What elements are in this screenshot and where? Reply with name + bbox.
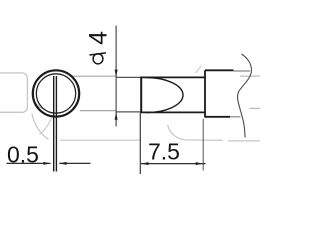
front view outer circle xyxy=(33,70,79,116)
watermark curve below circle xyxy=(32,114,49,140)
break line xyxy=(238,54,252,138)
side view bottom edge xyxy=(140,111,206,113)
phi4 extension line top (dark part) xyxy=(116,76,142,78)
watermark line bottom right xyxy=(228,140,260,142)
0.5 dimension line right segment xyxy=(59,162,90,164)
7.5 left arrow xyxy=(141,162,148,165)
phi4 label: diameter symbol circle xyxy=(93,54,103,64)
blade edge line left xyxy=(53,76,55,172)
watermark line mid left xyxy=(60,139,140,141)
phi4 bottom arrow xyxy=(115,112,118,120)
sleeve bottom edge dark xyxy=(205,116,230,118)
watermark crossing arc xyxy=(40,118,53,135)
phi4 top arrow xyxy=(115,70,118,78)
watermark diagonal near step xyxy=(196,66,202,74)
svg-text:7.5: 7.5 xyxy=(148,138,180,164)
sleeve top edge light xyxy=(234,70,251,72)
svg-text:4: 4 xyxy=(85,31,113,45)
7.5 left extension line xyxy=(139,113,141,174)
blade edge line right xyxy=(55,76,57,172)
phi4 extension line top (light part) xyxy=(70,75,116,77)
watermark arc near 7.5 xyxy=(168,125,223,140)
side view top edge xyxy=(140,76,206,78)
side view tip face edge xyxy=(140,77,142,113)
7.5 dimension line xyxy=(141,163,206,165)
watermark bracket left xyxy=(0,73,27,112)
phi4 extension line bottom (dark part) xyxy=(116,111,142,113)
watermark line right bottom xyxy=(250,107,261,109)
0.5 right arrow xyxy=(59,162,66,165)
0.5 dimension line left segment xyxy=(7,162,51,164)
watermark arc inside circle xyxy=(33,98,44,110)
0.5 left arrow xyxy=(43,162,50,165)
phi4 label: diameter symbol slash xyxy=(89,53,106,55)
watermark line right top xyxy=(240,75,260,77)
sleeve bottom edge light xyxy=(230,116,241,118)
sleeve top edge dark xyxy=(205,69,234,71)
phi4 extension line bottom (light part) xyxy=(80,110,116,112)
chisel grind ellipse xyxy=(146,78,183,113)
front view inner circle xyxy=(36,74,75,113)
svg-text:0.5: 0.5 xyxy=(7,142,39,168)
step edge xyxy=(204,70,206,117)
7.5 right extension line xyxy=(202,119,204,171)
phi4 dimension line xyxy=(115,26,117,127)
7.5 right arrow xyxy=(196,162,203,165)
